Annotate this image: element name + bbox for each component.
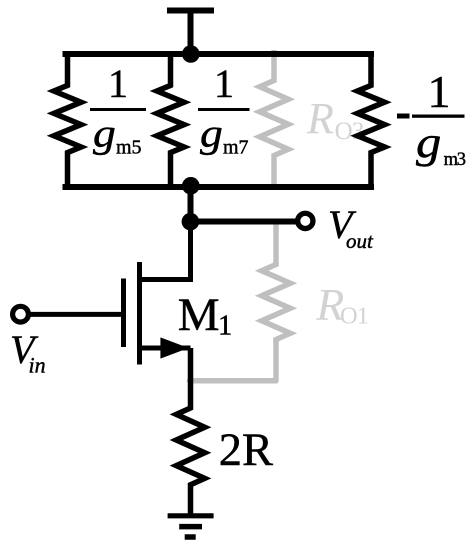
svg-text:m3: m3 xyxy=(444,150,466,170)
svg-text:g: g xyxy=(200,112,223,156)
svg-text:O3: O3 xyxy=(335,118,364,145)
svg-text:2R: 2R xyxy=(219,425,273,476)
svg-text:g: g xyxy=(416,119,441,167)
svg-text:out: out xyxy=(346,229,374,253)
svg-text:O1: O1 xyxy=(340,303,368,330)
svg-text:m7: m7 xyxy=(223,137,249,159)
svg-text:m5: m5 xyxy=(116,137,142,159)
svg-text:in: in xyxy=(29,353,46,378)
svg-text:R: R xyxy=(306,94,334,143)
svg-text:M: M xyxy=(178,289,220,341)
svg-text:1: 1 xyxy=(428,66,451,117)
svg-text:1: 1 xyxy=(218,310,232,341)
svg-text:g: g xyxy=(93,112,116,156)
svg-text:1: 1 xyxy=(108,61,128,106)
svg-text:1: 1 xyxy=(214,61,234,106)
